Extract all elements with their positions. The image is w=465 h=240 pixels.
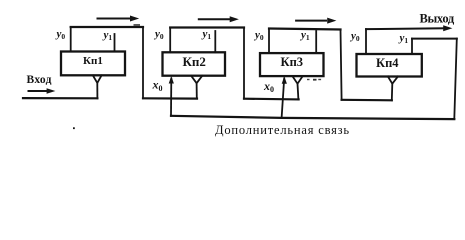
wire output run to Выход arrow [366,27,446,30]
wire y0 run Кп3 top horizontal [269,29,341,30]
stray scan dot [73,127,75,129]
arrow direction marker above Кп1-Кп2 [97,18,132,20]
svg-text:Кп4: Кп4 [376,56,399,70]
wire y0 output Кп1 vertical [70,27,72,52]
wire y1 stub Кп1 [114,34,116,52]
wire feed rise into Кп3 funnel [297,84,300,100]
arrowhead Выход output [443,25,452,31]
block Кп2 [163,52,226,75]
wire Вход feed run [23,97,97,99]
wire descent Кп2->Кп3 [243,28,245,99]
wire y0 output Кп4 vertical [365,29,367,54]
wire y1 Кп4 horizontal to right edge [412,38,457,40]
wire feed run to Кп4 funnel [342,99,392,102]
wire descent Кп1->Кп2 [142,27,144,98]
funnel input triangle Кп1 [93,76,102,83]
wire y0 run Кп2 top horizontal [170,26,244,28]
wire y1 stub Кп2 [214,31,216,52]
wire feed rise into Кп4 funnel [391,84,394,101]
arrow direction marker above Кп2-Кп3 [198,18,230,20]
block Кп1 [61,52,125,76]
funnel input triangle Кп3 [293,76,303,84]
wire y1 output Кп4 vertical [411,39,413,54]
svg-text:Кп1: Кп1 [83,55,103,67]
wire feed rise into Кп2 funnel [196,83,198,98]
wire y0 output Кп3 vertical [268,29,270,54]
funnel input triangle Кп4 [388,77,398,84]
wire Вход feed rise into Кп1 funnel [96,83,98,98]
svg-text:Кп3: Кп3 [281,55,304,69]
block Кп3 [260,53,324,76]
wire y0 output Кп2 vertical [169,28,171,53]
arrow Вход input marker [28,90,48,92]
svg-text:Вход: Вход [27,74,52,86]
funnel input triangle Кп2 [191,76,202,83]
wire x0 input Кп2 vertical [170,79,172,116]
svg-text:Дополнительная связь: Дополнительная связь [215,123,350,137]
svg-text:Кп2: Кп2 [183,54,206,69]
wire y1 stub Кп3 [315,31,317,53]
wire feed run to Кп3 funnel [244,98,299,101]
arrowhead x0 into Кп2 [169,76,174,84]
wire right edge vertical (feedback down) [454,39,457,119]
wire descent Кп3->Кп4 [341,30,342,100]
svg-text:Выход: Выход [420,11,455,25]
scan dash under Кп3 [307,79,310,80]
wire x0 input Кп3 vertical [282,79,285,118]
wire bottom feedback line [171,116,454,119]
wire y0 run Кп1 top horizontal [71,26,143,28]
block Кп4 [357,54,422,77]
scan dash above wire corner [134,24,141,25]
wire feed run to Кп2 funnel [143,97,197,99]
arrowhead x0 into Кп3 [282,76,287,84]
arrow direction marker above Кп3-Кп4 [295,20,327,22]
